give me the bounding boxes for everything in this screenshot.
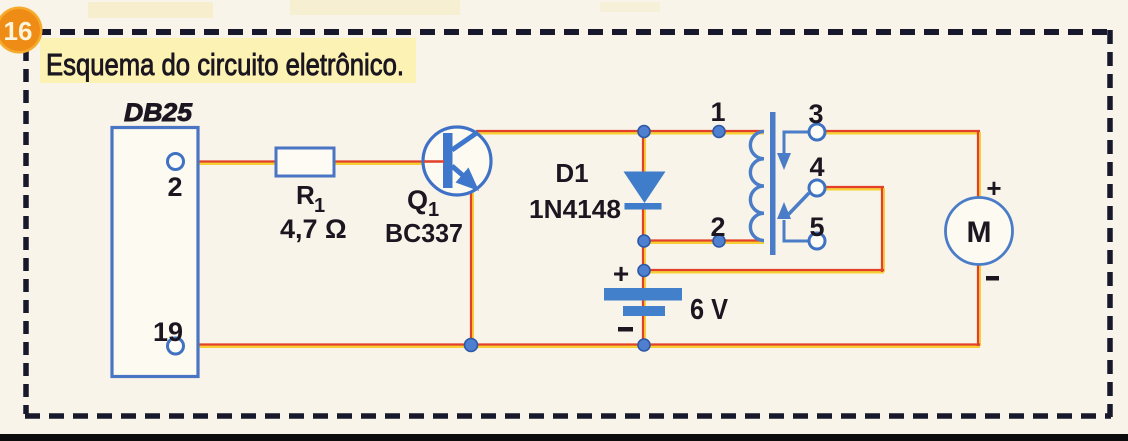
svg-text:BC337: BC337 [385,218,463,248]
svg-text:16: 16 [4,16,33,46]
svg-text:+: + [613,258,629,289]
svg-text:6 V: 6 V [690,294,729,326]
svg-text:1: 1 [710,97,725,127]
svg-text:+: + [986,173,1001,203]
svg-text:4: 4 [809,152,824,182]
svg-text:Q: Q [407,185,428,215]
svg-text:3: 3 [808,99,823,129]
svg-text:5: 5 [809,212,824,242]
svg-text:DB25: DB25 [124,99,193,127]
svg-text:R: R [296,180,315,210]
svg-text:2: 2 [167,172,182,202]
svg-text:4,7 Ω: 4,7 Ω [280,214,347,244]
svg-text:1N4148: 1N4148 [529,194,621,224]
svg-text:2: 2 [710,212,725,242]
svg-text:19: 19 [153,317,183,347]
svg-text:D1: D1 [555,158,588,188]
svg-text:Esquema do circuito eletrônico: Esquema do circuito eletrônico. [46,47,404,82]
svg-text:M: M [967,216,992,249]
